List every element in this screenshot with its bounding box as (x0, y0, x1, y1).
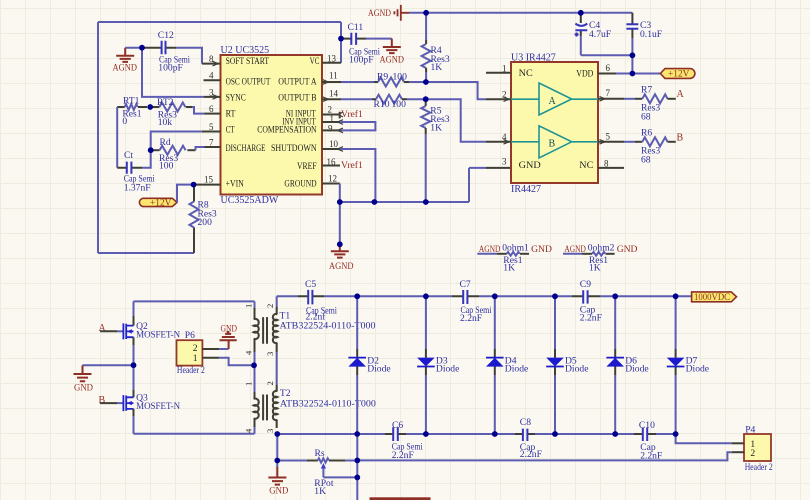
wire RT2 to pin 6 (192, 107, 205, 114)
svg-text:ATB322524-0110-T000: ATB322524-0110-T000 (280, 321, 376, 332)
svg-text:Rs: Rs (315, 448, 325, 459)
U2 pin 10 stub (322, 148, 340, 150)
ground GND (bottom mid) (268, 467, 288, 496)
resistor RT2 (150, 97, 192, 128)
svg-text:1000VDC: 1000VDC (694, 292, 730, 302)
junction Rs line right (354, 458, 360, 464)
svg-text:2: 2 (265, 304, 275, 308)
svg-text:Ct: Ct (124, 150, 133, 161)
wire Q2 source to Q3 drain (133, 337, 135, 345)
U3 pin 5 stub (598, 141, 624, 143)
capacitor C8 (515, 417, 542, 460)
svg-text:12: 12 (328, 174, 337, 184)
wire to GND (left) (83, 364, 134, 366)
wire B to Q3 gate (100, 402, 117, 404)
svg-text:C6: C6 (392, 420, 403, 431)
U3 pin 2 stub (486, 98, 511, 100)
svg-text:B: B (677, 132, 684, 143)
svg-text:C9: C9 (580, 279, 591, 290)
resistor R4 (422, 13, 450, 82)
U2 pin 12 stub (322, 183, 340, 185)
wire C3 bottom to VDD node (631, 38, 633, 74)
wire T1 pin4 to T2 pin1 (254, 352, 256, 392)
svg-text:1: 1 (193, 353, 198, 364)
svg-text:IR4427: IR4427 (511, 184, 541, 195)
svg-text:RT1: RT1 (123, 96, 140, 107)
svg-text:OUTPUT B: OUTPUT B (278, 93, 316, 103)
capacitor C7 (452, 279, 492, 324)
wire Q3 source down (133, 409, 135, 416)
junction ground bus R5 (423, 199, 429, 205)
junction bottom rail D2 (354, 431, 360, 437)
wire top-left rail (134, 301, 255, 308)
header P4 (744, 425, 773, 473)
U2 pin 2 arrow (338, 112, 344, 117)
wire Q2 drain up (133, 316, 135, 326)
resistor R6 (624, 128, 676, 166)
ground GND (above P6 wire, inverted) (220, 324, 238, 349)
U3 pin 3 stub (486, 167, 511, 169)
svg-text:1K: 1K (431, 62, 443, 73)
svg-text:RT: RT (226, 110, 236, 120)
svg-text:AGND: AGND (564, 244, 586, 255)
U3 pin 7 stub (598, 98, 624, 100)
junction T1 pin4 / P6 pin1 (251, 362, 257, 368)
wire C11 to AGND (366, 38, 392, 40)
svg-text:2: 2 (265, 381, 275, 385)
wire Ct right to CT pin (142, 132, 202, 168)
svg-text:AGND: AGND (479, 244, 501, 255)
svg-text:0: 0 (122, 116, 127, 127)
U2 pin 8 stub (202, 63, 221, 65)
capacitor C12 (142, 30, 190, 74)
wire A to Q2 gate (100, 330, 117, 332)
svg-text:A: A (99, 323, 107, 334)
svg-text:1K: 1K (589, 262, 601, 273)
wire bottom rail (277, 433, 676, 435)
P4 pin 1 stub (732, 442, 744, 444)
svg-text:Diode: Diode (505, 364, 528, 375)
ground AGND (top, sideways) (368, 5, 409, 21)
junction top AGND rail / R4 (423, 10, 429, 16)
U2 pin 7 stub (205, 146, 221, 148)
svg-text:100: 100 (392, 99, 407, 110)
wire Rs output to P4 pin 2 (357, 452, 731, 460)
svg-text:Vref1: Vref1 (341, 160, 363, 171)
svg-text:GND: GND (74, 382, 93, 393)
junction C4 top (578, 10, 584, 16)
svg-text:0ohm2: 0ohm2 (588, 242, 615, 253)
junction top rail D6 (612, 293, 618, 299)
svg-text:+12V: +12V (668, 70, 690, 80)
diode D6 (606, 296, 648, 434)
svg-text:OUTPUT A: OUTPUT A (278, 77, 317, 87)
svg-text:3: 3 (265, 352, 275, 356)
svg-text:R6: R6 (641, 128, 652, 139)
svg-text:GND: GND (519, 161, 541, 171)
svg-text:2: 2 (328, 105, 333, 115)
wire AGND drop (339, 202, 341, 244)
diode D5 (546, 296, 588, 434)
svg-text:Diode: Diode (565, 364, 588, 375)
svg-text:7: 7 (209, 137, 214, 147)
U2 pin 14 stub (322, 98, 341, 100)
svg-text:C7: C7 (460, 279, 471, 290)
U2 pin 9 stub (322, 129, 340, 131)
resistor 0ohm2 jumper (563, 242, 638, 273)
U3 pin 4 stub (486, 141, 511, 143)
U2 pin 6 stub (205, 113, 221, 115)
svg-text:T1: T1 (280, 310, 291, 321)
svg-text:3: 3 (265, 429, 275, 433)
svg-text:C11: C11 (348, 22, 364, 33)
svg-text:8: 8 (604, 158, 609, 168)
svg-text:1K: 1K (314, 486, 326, 497)
svg-text:NC: NC (519, 69, 533, 79)
diode D3 (417, 296, 459, 434)
diode D2 (348, 296, 390, 434)
junction R5/R10 (423, 96, 429, 102)
svg-text:GROUND: GROUND (284, 180, 316, 190)
junction bottom rail T2 (274, 431, 280, 437)
wire ground bus (340, 168, 486, 202)
svg-text:15: 15 (204, 175, 214, 185)
svg-text:Header 2: Header 2 (177, 365, 205, 376)
svg-text:6: 6 (209, 104, 214, 114)
header P6 (177, 330, 206, 376)
junction bottom rail D6 (612, 431, 618, 437)
svg-text:2: 2 (750, 448, 755, 459)
transistor Q3 (123, 393, 180, 412)
capacitor C4 (575, 13, 612, 40)
svg-text:100: 100 (159, 160, 174, 171)
U3 pin 2 arrow (504, 97, 510, 102)
junction top rail D4 (492, 293, 498, 299)
svg-text:Header 2: Header 2 (745, 462, 773, 473)
junction C4/C3 bottom (630, 52, 636, 58)
junction VC/C11 (338, 36, 344, 42)
resistor R9 (341, 72, 426, 87)
svg-text:10k: 10k (158, 117, 173, 128)
U2 pin 13 stub (322, 62, 341, 64)
svg-text:GND: GND (269, 485, 288, 496)
resistor R5 (421, 99, 449, 202)
svg-text:AGND: AGND (329, 261, 354, 272)
svg-text:4: 4 (209, 71, 214, 81)
svg-text:R9: R9 (377, 72, 388, 83)
transformer T1 (244, 304, 376, 356)
resistor Rs / RPot (277, 448, 357, 497)
svg-text:SOFT START: SOFT START (226, 57, 270, 67)
svg-text:A: A (549, 96, 557, 107)
wire D2 column below rail (356, 434, 358, 500)
U2 pin 11 stub (322, 81, 341, 83)
junction RPot wiper (354, 475, 360, 481)
svg-text:SYNC: SYNC (226, 93, 246, 103)
U2 pin 16 stub (322, 165, 340, 167)
junction ground bus pin10 (372, 199, 378, 205)
svg-text:B: B (99, 395, 106, 406)
svg-text:OSC OUTPUT: OSC OUTPUT (226, 77, 271, 87)
svg-text:Diode: Diode (436, 364, 459, 375)
svg-text:AGND: AGND (113, 63, 138, 74)
svg-text:4: 4 (244, 428, 254, 433)
svg-text:100pF: 100pF (349, 54, 374, 65)
svg-text:CT: CT (226, 125, 235, 135)
svg-text:8: 8 (209, 54, 214, 64)
svg-text:VREF: VREF (297, 162, 317, 172)
ground AGND (right of C11) (380, 39, 405, 66)
junction Rd tap (148, 147, 154, 153)
svg-text:0.1uF: 0.1uF (640, 29, 662, 40)
wire top AGND rail (409, 12, 632, 14)
svg-text:2.2nF: 2.2nF (580, 313, 602, 324)
wire C12 to pin 8 (177, 48, 202, 64)
capacitor C11 (341, 22, 380, 65)
transformer T2 (244, 381, 377, 433)
wire Rd to pin 7 (196, 147, 205, 150)
svg-text:NC: NC (579, 161, 593, 171)
svg-text:+12V: +12V (150, 199, 172, 209)
ground GND (left) (74, 365, 94, 393)
capacitor Ct (117, 150, 155, 193)
U2 pin 2 stub (322, 112, 340, 119)
svg-text:GND: GND (617, 244, 638, 255)
resistor R8 (190, 185, 217, 253)
svg-text:COMPENSATION: COMPENSATION (257, 125, 317, 135)
svg-text:Diode: Diode (686, 364, 709, 375)
svg-text:10: 10 (329, 139, 339, 149)
transistor Q2 (123, 321, 180, 340)
svg-text:AGND: AGND (368, 8, 391, 19)
svg-text:C5: C5 (305, 279, 316, 290)
svg-text:9: 9 (328, 123, 333, 133)
P4 pin 2 stub (732, 451, 744, 453)
svg-text:68: 68 (641, 155, 651, 166)
U2 pin 5 stub (202, 131, 221, 133)
svg-text:AGND: AGND (380, 55, 405, 66)
capacitor C3 (626, 13, 662, 40)
svg-text:Rd: Rd (160, 137, 171, 148)
svg-text:P4: P4 (745, 425, 755, 436)
U3 pin 7 arrow (600, 97, 606, 102)
wire bottom-left rail (134, 427, 255, 434)
wire AGND to C12 junction (125, 47, 142, 49)
wire R9 node to U3 pin 2 (426, 82, 486, 99)
diode D4 (486, 296, 528, 434)
junction +VIN/R8 (191, 182, 197, 188)
svg-text:0ohm1: 0ohm1 (502, 242, 529, 253)
svg-text:RT2: RT2 (157, 97, 174, 108)
U2 pin 10 arrow (338, 147, 344, 152)
capacitor C5 (298, 279, 337, 323)
junction C12/AGND/SYNC (139, 45, 145, 51)
junction top rail D5 (552, 293, 558, 299)
wire pin1 to pin9 loop (340, 122, 375, 130)
svg-text:3: 3 (209, 87, 214, 97)
wire VDD node to +12V (616, 73, 660, 75)
U2 pin 1 arrow (338, 120, 344, 125)
svg-text:3: 3 (502, 157, 507, 167)
wire C4 bottom (581, 36, 633, 55)
svg-text:14: 14 (329, 89, 339, 99)
U2 pin 9 arrow (338, 128, 344, 133)
svg-text:SHUTDOWN: SHUTDOWN (271, 144, 317, 154)
ground AGND (under C12) (113, 48, 138, 74)
svg-text:2.2nF: 2.2nF (520, 449, 542, 460)
power port +12V (left) (139, 198, 177, 208)
resistor Rd (151, 137, 196, 171)
partial symbol at bottom edge (370, 497, 431, 500)
junction bottom rail D5 (552, 431, 558, 437)
op-amp U2 UC3525 body (221, 45, 323, 206)
wire pin12 down (339, 184, 341, 203)
wire RT1 left leg down (116, 107, 118, 168)
wire VC drop (340, 22, 342, 63)
U3 pin 8 stub (598, 167, 624, 169)
junction bottom rail D4 (492, 431, 498, 437)
svg-text:1: 1 (244, 304, 254, 308)
svg-text:U3 IR4427: U3 IR4427 (511, 53, 556, 64)
wire T2 pin3 node down (276, 434, 278, 468)
svg-text:11: 11 (329, 71, 338, 81)
svg-text:A: A (677, 89, 685, 100)
svg-text:DISCHARGE: DISCHARGE (226, 144, 266, 154)
svg-text:VC: VC (310, 57, 320, 67)
capacitor C9 (572, 279, 602, 324)
junction RT1/RT2 (147, 104, 153, 110)
U2 pin 3 stub (204, 96, 221, 98)
junction AGND mid stub (337, 241, 343, 247)
power port +12V (right) (660, 69, 695, 80)
svg-text:1: 1 (244, 382, 254, 386)
svg-text:5: 5 (606, 131, 611, 141)
ground AGND (mid) (329, 244, 354, 271)
svg-text:C8: C8 (520, 417, 531, 428)
svg-text:R7: R7 (641, 85, 652, 96)
junction ground bus left (337, 199, 343, 205)
svg-text:ATB322524-0110-T000: ATB322524-0110-T000 (280, 399, 376, 410)
svg-text:Vref1: Vref1 (341, 109, 363, 120)
svg-text:2.2nf: 2.2nf (306, 312, 327, 323)
svg-text:5: 5 (209, 122, 214, 132)
svg-text:100pF: 100pF (158, 63, 183, 74)
U2 pin 1 stub (322, 121, 340, 123)
svg-text:C10: C10 (639, 420, 655, 431)
U2 pin 14 arrow (323, 97, 329, 102)
svg-text:Diode: Diode (625, 364, 648, 375)
svg-text:VDD: VDD (576, 70, 593, 80)
svg-text:1K: 1K (430, 122, 442, 133)
svg-text:MOSFET-N: MOSFET-N (136, 329, 180, 340)
U3 pin 6 stub (598, 73, 616, 75)
svg-text:4: 4 (244, 350, 254, 355)
wire SYNC net (142, 48, 204, 97)
junction top rail D7 (673, 293, 679, 299)
svg-text:1K: 1K (503, 262, 515, 273)
capacitor C6 (385, 420, 423, 461)
svg-text:GND: GND (221, 324, 238, 335)
junction Q2/Q3 midpoint (131, 362, 137, 368)
resistor RT1 (117, 96, 147, 128)
svg-text:T2: T2 (280, 388, 291, 399)
svg-text:6: 6 (606, 63, 611, 73)
resistor 0ohm1 jumper (477, 242, 552, 273)
U3 driver triangle A (511, 83, 598, 115)
junction VDD node (630, 71, 636, 77)
svg-text:P6: P6 (185, 330, 195, 341)
U3 pin 5 arrow (600, 140, 606, 145)
power port 1000VDC (692, 292, 737, 302)
junction C5 rail D2 (354, 293, 360, 299)
junction R4/R9 (423, 79, 429, 85)
P6 pin 1 stub and wire (202, 357, 219, 359)
svg-text:MOSFET-N: MOSFET-N (136, 401, 180, 412)
U3 driver triangle B (511, 126, 598, 158)
svg-text:R10: R10 (374, 99, 390, 110)
diode D7 (667, 296, 709, 434)
wire bottom of loop (98, 252, 194, 254)
U3 pin 4 arrow (504, 140, 510, 145)
wire rail to P4 pin 1 (676, 434, 732, 443)
svg-text:GND: GND (531, 244, 552, 255)
wire C5 rail (277, 295, 692, 297)
svg-text:1.37nF: 1.37nF (124, 182, 151, 193)
junction top rail D3 (423, 293, 429, 299)
svg-text:+VIN: +VIN (226, 180, 244, 190)
svg-text:100: 100 (393, 72, 408, 83)
U2 pin 4 stub (204, 79, 221, 81)
resistor R7 (624, 85, 676, 123)
svg-text:2.2nF: 2.2nF (392, 450, 414, 461)
wire top-left loop horizontal (98, 21, 341, 23)
svg-text:4.7uF: 4.7uF (589, 29, 611, 40)
capacitor C10 (634, 420, 662, 462)
U3 pin 1 stub (486, 72, 511, 74)
wire top-left loop vertical (97, 22, 99, 253)
U2 pin 8 arrow (213, 61, 219, 66)
wire T1 pin2 up to C5 rail (276, 296, 278, 307)
wire R10 node to U3 pin 4 (426, 99, 486, 142)
wire T1 pin3 to T2 pin2 (276, 352, 278, 385)
junction Rs line left (274, 458, 280, 464)
svg-text:B: B (549, 139, 556, 150)
op-amp U3 IR4427 body (511, 53, 598, 196)
svg-text:7: 7 (606, 88, 611, 98)
wire +12V to pin15 (177, 185, 194, 203)
svg-text:200: 200 (198, 217, 213, 228)
wire pin10 to ground bus (340, 149, 375, 202)
resistor R10 (341, 95, 426, 111)
P6 pin 2 stub and wire (202, 348, 219, 350)
junction bottom rail D3 (423, 431, 429, 437)
svg-text:2.2nF: 2.2nF (460, 313, 482, 324)
U2 pin 11 arrow (323, 80, 329, 85)
junction bottom rail D7 (673, 431, 679, 437)
svg-text:Diode: Diode (367, 364, 390, 375)
svg-text:C12: C12 (158, 30, 174, 41)
U2 pin 15 stub (194, 184, 221, 186)
svg-text:68: 68 (641, 111, 651, 122)
svg-text:U2 UC3525: U2 UC3525 (221, 45, 270, 56)
svg-text:UC3525ADW: UC3525ADW (221, 195, 279, 206)
U2 pin 3 arrow (213, 95, 219, 100)
